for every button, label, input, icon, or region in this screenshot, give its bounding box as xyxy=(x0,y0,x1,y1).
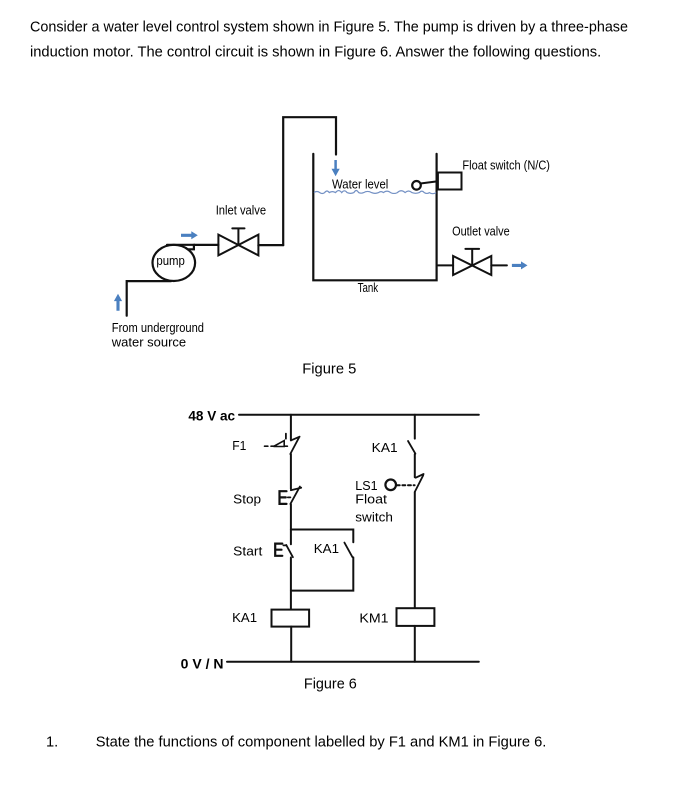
wire outlet pipe left xyxy=(438,264,453,266)
svg-text:induction motor. The control c: induction motor. The control circuit is … xyxy=(30,44,601,60)
pump volute outlet xyxy=(167,245,194,250)
svg-text:Figure 5: Figure 5 xyxy=(302,362,356,378)
svg-text:Float: Float xyxy=(355,492,387,506)
wire Start to coil KA1 xyxy=(290,558,292,610)
wire rail to F1 xyxy=(290,415,292,441)
wire pump to inlet valve xyxy=(194,244,219,246)
coil KM1 xyxy=(397,608,435,626)
tank walls xyxy=(313,154,436,280)
wire contact KA1 to LS1 xyxy=(414,454,416,477)
svg-text:0 V / N: 0 V / N xyxy=(181,656,224,671)
svg-text:Start: Start xyxy=(233,545,263,559)
pushbutton Stop actuator link dash xyxy=(288,496,291,498)
svg-text:LS1: LS1 xyxy=(355,479,377,493)
wire inlet valve to riser xyxy=(258,244,283,246)
svg-text:pump: pump xyxy=(156,254,185,268)
wire riser pipe over tank xyxy=(283,117,336,245)
wire parallel branch bottom xyxy=(291,557,353,590)
wire junction to parallel branch top xyxy=(291,530,353,543)
svg-text:Inlet valve: Inlet valve xyxy=(216,204,266,218)
float switch link rod xyxy=(420,181,438,183)
wire F1 to Stop xyxy=(290,454,292,489)
wire outlet pipe right xyxy=(491,264,507,266)
svg-text:Stop: Stop xyxy=(233,493,261,507)
svg-text:1.: 1. xyxy=(46,734,58,750)
inlet valve body xyxy=(218,235,258,256)
svg-text:Tank: Tank xyxy=(358,281,379,295)
bottom rail 0V xyxy=(227,661,479,663)
outlet valve body xyxy=(453,256,491,275)
breaker F1 trip linkage dashes xyxy=(265,445,290,447)
svg-text:water source: water source xyxy=(111,336,186,350)
pump P1 body xyxy=(153,245,196,281)
inlet valve stem xyxy=(232,228,244,245)
pushbutton Start actuator E xyxy=(275,544,282,556)
pushbutton Stop fixed contact tick xyxy=(291,488,301,491)
wire coil KA1 to bottom rail xyxy=(290,627,292,662)
pushbutton Start actuator link dash xyxy=(283,544,286,546)
float switch LS1 fixed contact tick xyxy=(416,474,424,478)
wire coil KM1 to bottom rail xyxy=(414,626,416,662)
svg-text:State the functions of compone: State the functions of component labelle… xyxy=(96,734,547,750)
breaker F1 fixed contact tick xyxy=(291,437,300,441)
wire supply pipe from underground xyxy=(127,281,171,316)
float switch LS1 actuator circle xyxy=(385,480,396,491)
svg-text:Consider a water level control: Consider a water level control system sh… xyxy=(30,19,628,35)
svg-text:Float switch (N/C): Float switch (N/C) xyxy=(462,159,550,173)
breaker F1 trip triangle xyxy=(274,441,285,447)
svg-text:Figure 6: Figure 6 xyxy=(304,677,357,693)
water level wavy line xyxy=(314,191,436,194)
wire rail to contact KA1 xyxy=(414,415,416,439)
pushbutton Stop blade xyxy=(290,487,300,504)
wire LS1 to coil KM1 xyxy=(414,492,416,608)
contact KA1 parallel blade xyxy=(344,543,352,558)
outlet valve stem xyxy=(465,249,479,266)
pushbutton Stop actuator E xyxy=(280,491,287,504)
svg-text:48 V ac: 48 V ac xyxy=(188,408,235,423)
flow arrow pump to valve xyxy=(181,231,198,239)
svg-text:KM1: KM1 xyxy=(359,611,388,625)
svg-text:KA1: KA1 xyxy=(232,611,257,625)
svg-text:KA1: KA1 xyxy=(314,542,339,556)
float switch FS1 box xyxy=(438,173,462,190)
svg-text:F1: F1 xyxy=(232,439,246,453)
flow arrow up from source xyxy=(114,294,122,311)
flow arrow into tank xyxy=(332,160,340,176)
wire junction to Start xyxy=(290,530,292,545)
top rail 48V xyxy=(239,414,479,416)
contact KA1 blade xyxy=(408,441,415,454)
coil KA1 xyxy=(272,610,310,627)
flow arrow out of tank xyxy=(512,261,528,269)
breaker F1 latch tick xyxy=(285,434,287,439)
svg-text:switch: switch xyxy=(355,511,393,525)
float switch LS1 actuator link dashes xyxy=(397,484,415,486)
svg-text:Water level: Water level xyxy=(332,178,388,192)
svg-text:From underground: From underground xyxy=(112,321,204,335)
svg-text:KA1: KA1 xyxy=(372,441,398,455)
svg-text:Outlet valve: Outlet valve xyxy=(452,224,510,238)
float ball xyxy=(412,181,421,190)
pushbutton Start blade xyxy=(286,545,293,557)
wire Stop to junction xyxy=(290,504,292,529)
float switch LS1 blade xyxy=(415,475,423,492)
breaker F1 blade xyxy=(290,438,299,454)
